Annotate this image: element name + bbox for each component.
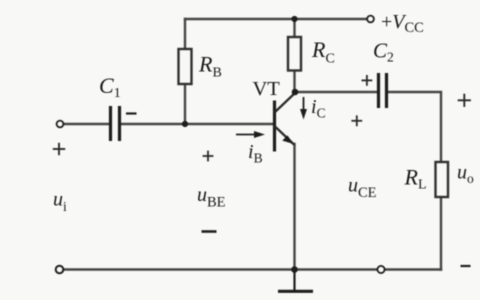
label minus of u_BE [202,230,217,233]
transistor Q1 emitter lead with arrow [275,126,295,145]
wire R_L to bottom rail [440,197,442,270]
svg-text:C1: C1 [99,73,121,101]
svg-text:ui: ui [53,189,67,215]
label plus of u_BE [203,151,214,162]
svg-text:uCE: uCE [348,175,377,202]
arrow i_C [300,97,307,120]
svg-text:RC: RC [311,37,335,67]
svg-text:RL: RL [404,165,427,193]
terminal +Vcc open circle [367,16,374,23]
wire bottom rail [62,268,441,270]
wire R_B top branch [184,19,186,49]
node collector junction dot [292,89,299,96]
wire emitter vertical [293,144,295,270]
terminal bottom-right open circle [377,266,384,273]
terminal input open circle [57,121,64,128]
terminal bottom-left open circle [56,266,64,274]
node top rail junction dot [291,16,297,22]
svg-text:VT: VT [253,78,281,100]
resistor R3 R_L [436,162,449,197]
transistor Q1 collector lead [275,93,296,113]
svg-text:+VCC: +VCC [381,11,424,36]
resistor R2 R_C [288,37,301,71]
svg-text:C2: C2 [373,39,394,65]
wire R_B bottom branch [184,84,186,124]
node emitter-rail junction dot [291,266,298,273]
svg-text:RB: RB [198,52,222,81]
label minus of C1 [126,112,137,114]
label plus of u_o [458,94,471,107]
label plus of u_CE [351,115,362,126]
svg-text:iB: iB [248,141,263,166]
transistor Q1 VT body bar [273,101,276,152]
wire collector node to C2 [295,91,377,93]
capacitor C2 plates [379,73,387,108]
wire R_C box to collector node [293,71,295,93]
wire top rail [185,18,367,20]
label plus at input [53,143,65,155]
label plus of C2 [362,75,373,86]
node base junction dot [182,121,188,127]
label minus of u_o [461,265,471,267]
svg-text:iC: iC [311,96,326,121]
svg-text:uo: uo [457,162,474,187]
resistor R1 R_B [179,49,192,84]
wire C2 to right corner [387,92,441,162]
wire base left (input to C1) [63,123,109,125]
wire base right (C1 to transistor) [121,123,273,125]
capacitor C1 plates [111,106,120,141]
svg-text:uBE: uBE [197,184,226,211]
wire R_C rail to box [293,19,295,37]
arrow i_B [236,131,265,138]
ground [278,270,313,292]
